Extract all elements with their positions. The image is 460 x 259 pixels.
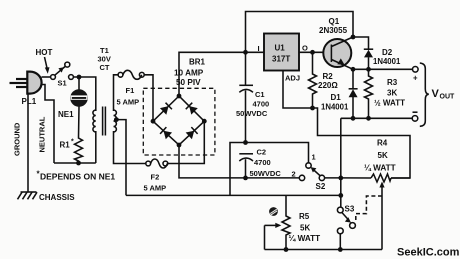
- capacitor C2: [239, 154, 253, 178]
- resistor R1: [75, 107, 83, 164]
- wire BR1 minus to C2 bottom line: [179, 145, 299, 178]
- resistor R3: [365, 69, 373, 118]
- potentiometer R5: [282, 195, 290, 249]
- svg-text:CT: CT: [100, 63, 110, 72]
- BR1 diode lower-left: [160, 127, 172, 139]
- svg-text:F2: F2: [151, 173, 160, 182]
- svg-text:C2: C2: [257, 147, 267, 156]
- plus terminal: [413, 67, 419, 73]
- secondary winding: [114, 110, 117, 132]
- svg-text:S1: S1: [58, 79, 67, 88]
- wire U1 out to Q1 base: [299, 51, 332, 53]
- wire S1 to transformer primary top: [73, 77, 95, 111]
- svg-text:Q1: Q1: [329, 17, 340, 26]
- svg-text:4700: 4700: [253, 100, 270, 109]
- svg-text:S2: S2: [316, 182, 326, 191]
- svg-text:4700: 4700: [254, 158, 271, 167]
- svg-text:OUT: OUT: [440, 94, 456, 101]
- junction C1-C2 midpoint: [243, 140, 248, 145]
- transistor Q1: [323, 39, 351, 67]
- svg-text:+: +: [413, 73, 418, 82]
- fuse F2: [146, 159, 168, 168]
- output brace: [420, 63, 429, 126]
- resistor R2: [309, 52, 317, 108]
- svg-text:ADJ: ADJ: [285, 74, 300, 83]
- svg-text:3K: 3K: [387, 88, 397, 97]
- input rail junction at C1: [243, 50, 248, 55]
- wire center tap down to common line: [114, 120, 126, 196]
- svg-text:U1: U1: [275, 44, 286, 53]
- svg-text:GROUND: GROUND: [13, 122, 22, 156]
- svg-text:NEUTRAL: NEUTRAL: [38, 116, 47, 152]
- svg-text:PL1: PL1: [22, 97, 37, 106]
- svg-text:5K: 5K: [378, 151, 388, 160]
- svg-text:R1: R1: [60, 141, 71, 150]
- wire neutral horizontal to transformer primary bottom: [54, 162, 96, 164]
- vertical minus/common line: [340, 118, 342, 207]
- svg-text:D1: D1: [331, 93, 342, 102]
- junction C2 bottom: [243, 176, 248, 181]
- wire secondary bottom to F2: [114, 131, 146, 164]
- bottom rail: [265, 249, 383, 251]
- label minus: [413, 111, 418, 113]
- junction S2 pole / R4 left: [338, 176, 343, 181]
- svg-text:¼ WATT: ¼ WATT: [364, 164, 396, 173]
- wire F2 to BR1 right vertex: [168, 121, 205, 163]
- junction S3 bottom: [338, 247, 343, 252]
- junction emitter / D1 top: [351, 67, 356, 72]
- minus line: [341, 117, 412, 119]
- svg-text:S3: S3: [345, 205, 355, 214]
- BR1 diode upper-left: [160, 103, 172, 115]
- svg-text:*: *: [71, 139, 74, 146]
- fuse F1: [118, 70, 144, 79]
- BR1 vertex junctions: [177, 94, 182, 99]
- svg-text:F1: F1: [126, 86, 135, 95]
- screwdriver adjust symbol: [269, 207, 278, 216]
- svg-text:D2: D2: [382, 48, 393, 57]
- regulator U1: [264, 34, 299, 71]
- wire secondary top to F1: [114, 75, 119, 111]
- svg-text:5K: 5K: [300, 224, 310, 233]
- wire plug neutral down: [42, 85, 55, 164]
- transformer T1: [93, 107, 116, 136]
- wire ADJ line to R4 top: [313, 108, 411, 178]
- R5 wiper: [265, 224, 277, 226]
- svg-text:½ WATT: ½ WATT: [374, 99, 405, 108]
- common line junction: [338, 193, 343, 198]
- svg-text:5 AMP: 5 AMP: [144, 184, 167, 193]
- primary winding: [93, 110, 96, 132]
- junction R5 bottom: [284, 247, 289, 252]
- svg-text:HOT: HOT: [36, 48, 53, 57]
- arrow from HOT to wire: [45, 57, 48, 68]
- svg-text:2N3055: 2N3055: [319, 26, 348, 35]
- junction R3 bottom: [366, 116, 371, 121]
- svg-text:R3: R3: [387, 78, 398, 87]
- wire BR1 plus output to input rail: [179, 52, 264, 96]
- junction collector rail: [351, 35, 356, 40]
- dashed link R4 wiper to S3: [356, 196, 382, 221]
- junction D2 bottom / R3 top: [366, 67, 371, 72]
- junction R1 bottom: [76, 161, 81, 166]
- svg-text:R2: R2: [323, 72, 334, 81]
- svg-text:5 AMP: 5 AMP: [117, 98, 140, 107]
- wire primary bottom: [95, 131, 97, 163]
- svg-text:2: 2: [292, 169, 296, 178]
- junction NE1 tap: [77, 75, 82, 80]
- wire ADJ pin down to R2 bottom: [283, 71, 313, 109]
- collector: [332, 37, 354, 47]
- center tap junction: [114, 117, 119, 122]
- svg-text:220Ω: 220Ω: [318, 81, 338, 90]
- svg-text:V: V: [432, 88, 440, 100]
- wire plug hot to S1: [42, 76, 51, 78]
- neon lamp NE1: [71, 79, 88, 106]
- svg-text:O: O: [302, 44, 308, 53]
- bridge rectifier BR1 dashed box: [143, 88, 215, 155]
- svg-text:R4: R4: [377, 138, 388, 147]
- svg-text:DEPENDS ON NE1: DEPENDS ON NE1: [40, 172, 115, 182]
- switch S3: [337, 207, 355, 249]
- common line from center tap: [126, 194, 341, 196]
- plug PL1: [10, 72, 42, 94]
- svg-text:CHASSIS: CHASSIS: [39, 193, 75, 202]
- wire C1C2 mid to S2 pin1 and riser to common: [230, 143, 309, 196]
- switch S2: [299, 163, 341, 181]
- emitter with arrow: [332, 60, 354, 70]
- switch S1: [51, 62, 74, 79]
- svg-text:317T: 317T: [272, 55, 290, 64]
- potentiometer R4: [341, 177, 410, 179]
- junction D1 bottom: [351, 116, 356, 121]
- svg-text:C1: C1: [255, 90, 265, 99]
- wire F1 to BR1 left vertex: [144, 75, 153, 121]
- wire collector to D2: [353, 37, 369, 49]
- svg-text:50WVDC: 50WVDC: [236, 109, 268, 118]
- svg-text:NE1: NE1: [58, 110, 74, 119]
- svg-text:1N4001: 1N4001: [321, 103, 349, 112]
- diode D1: [349, 69, 358, 118]
- svg-text:¼ WATT: ¼ WATT: [289, 234, 321, 243]
- svg-text:BR1: BR1: [189, 58, 206, 67]
- diode D2: [364, 49, 373, 69]
- minus terminal: [412, 116, 418, 122]
- wire plus line: [353, 68, 413, 70]
- R4 wiper arrow: [381, 186, 383, 250]
- core: [103, 107, 106, 136]
- BR1 diode upper-right: [186, 103, 198, 115]
- svg-text:1N4001: 1N4001: [373, 57, 401, 66]
- svg-text:50WVDC: 50WVDC: [250, 169, 282, 178]
- capacitor C1: [239, 52, 253, 142]
- BR1 diamond: [153, 96, 204, 145]
- svg-text:R5: R5: [299, 212, 310, 221]
- svg-text:1: 1: [312, 153, 316, 162]
- junction R2 tap: [310, 50, 315, 55]
- junction ADJ-R2: [310, 106, 315, 111]
- wire ground from plug to chassis: [27, 94, 29, 193]
- chassis ground symbol: [18, 192, 38, 199]
- top rail: [246, 12, 354, 53]
- BR1 diode lower-right: [186, 127, 198, 139]
- svg-text:I: I: [258, 44, 260, 53]
- svg-text:SeekIC.com: SeekIC.com: [397, 246, 460, 258]
